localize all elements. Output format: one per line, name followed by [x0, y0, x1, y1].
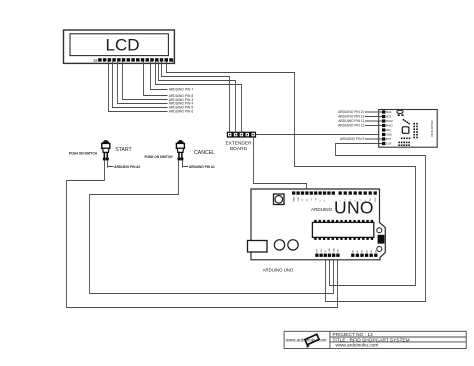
wire extender to RFID GND pin — [256, 134, 382, 136]
svg-text:PUSH ON SWITCH: PUSH ON SWITCH — [145, 155, 174, 159]
wire LCD pin4 to ARDUINO PIN 4 label — [118, 62, 168, 104]
arduino right edge black component — [378, 235, 385, 244]
label ARDUINO PIN A0 with arrow — [108, 165, 141, 169]
arduino bottom pin headers — [315, 248, 377, 257]
svg-text:GND: GND — [298, 197, 300, 202]
svg-text:UNO: UNO — [334, 198, 374, 218]
wire RFID 3.3V to arduino 3V3 pin (outer right loop) — [326, 144, 426, 302]
svg-text:GND: GND — [386, 133, 392, 137]
wire SW1 right leg stub — [107, 160, 109, 167]
push on switch SW1 START — [102, 140, 110, 160]
svg-text:ARDUINO PIN A1: ARDUINO PIN A1 — [189, 165, 215, 169]
svg-text:16: 16 — [93, 58, 98, 63]
svg-text:VIN: VIN — [338, 249, 340, 253]
svg-text:START: START — [115, 147, 132, 153]
svg-text:LCD: LCD — [105, 36, 139, 55]
wire LCD pin to extender pin 2 — [159, 62, 236, 132]
wire LCD pin to ARDUINO PIN 7 label — [151, 62, 168, 90]
arduino mounting holes — [377, 228, 382, 252]
svg-text:ARDUINO PIN A0: ARDUINO PIN A0 — [114, 165, 140, 169]
svg-text:ARDUINO PIN 10: ARDUINO PIN 10 — [338, 110, 364, 114]
svg-text:ARDUINO PIN 13: ARDUINO PIN 13 — [338, 115, 364, 119]
arduino IC pins — [314, 220, 373, 240]
wire SW2 to arduino A1 via inner left loop — [90, 160, 334, 293]
wire extender pin5 to arduino top GND pin — [254, 138, 307, 192]
svg-text:SDA: SDA — [386, 110, 392, 114]
svg-text:ARDUINO PIN 7: ARDUINO PIN 7 — [169, 87, 194, 91]
push on switch SW2 CANCEL — [176, 140, 184, 160]
arduino uno board U1 — [251, 189, 385, 260]
LCD pin header (16 pins) — [98, 58, 173, 61]
title block — [284, 331, 466, 348]
wire SW1 to arduino A0 via outer left loop — [67, 160, 338, 307]
arduino top pin headers — [292, 191, 377, 201]
svg-text:RST: RST — [386, 137, 392, 141]
wire ARDUINO PIN 11 to MOSI — [365, 120, 383, 122]
wire LCD pin to extender pin 1 — [162, 62, 230, 132]
svg-text:MISO: MISO — [386, 124, 393, 128]
arduino ATmega IC — [312, 222, 373, 237]
RFID module RFID-RC522 — [379, 110, 438, 148]
arduino reset button — [274, 194, 285, 205]
wire ARDUINO PIN 10 to SDA — [365, 111, 383, 113]
svg-text:SCK: SCK — [386, 115, 392, 119]
wire ARDUINO PIN 12 to MISO — [365, 125, 383, 127]
wire LCD pin1 long run to right loop — [167, 62, 416, 286]
wire ARDUINO PIN 9 to RST — [365, 138, 383, 140]
wire LCD pin2 to ARDUINO PIN 6 label — [109, 62, 168, 112]
wire SW2 right leg stub — [182, 160, 184, 167]
RFID pin labels — [386, 110, 393, 146]
svg-text:EXTENDER: EXTENDER — [225, 141, 252, 147]
svg-text:ARDUINO PIN 12: ARDUINO PIN 12 — [338, 124, 364, 128]
wire LCD pin to ARDUINO PIN 8 label — [144, 62, 168, 96]
title block logo mark — [303, 334, 320, 348]
svg-text:ARDUINO UNO: ARDUINO UNO — [263, 268, 294, 273]
arduino capacitors — [274, 240, 298, 250]
svg-text:PROJECT NO : 13: PROJECT NO : 13 — [333, 332, 373, 338]
svg-text:GND: GND — [333, 248, 335, 253]
svg-text:3.3V: 3.3V — [386, 142, 392, 146]
svg-text:TITLE : RFID SHOPCART SYSTEM: TITLE : RFID SHOPCART SYSTEM — [333, 337, 410, 343]
LCD module U-LCD — [64, 30, 175, 63]
extender board J1 — [227, 132, 256, 138]
svg-text:ARDUINO: ARDUINO — [311, 207, 333, 212]
RFID pin header (8 pins) — [382, 110, 385, 145]
svg-text:BOARD: BOARD — [230, 146, 248, 152]
svg-text:www.arduinoku.com: www.arduinoku.com — [336, 342, 379, 348]
svg-text:IRQ: IRQ — [386, 128, 391, 132]
wire LCD pin to extender pin 3 — [156, 62, 242, 132]
svg-text:GND: GND — [329, 248, 331, 253]
svg-text:MOSI: MOSI — [386, 119, 393, 123]
svg-text:AREF: AREF — [292, 195, 295, 201]
svg-text:ARDUINO PIN 11: ARDUINO PIN 11 — [338, 119, 364, 123]
arduino USB connector — [248, 241, 268, 253]
wire LCD pin5 to ARDUINO PIN 3 label — [123, 62, 168, 100]
svg-text:ARDUINO PIN 6: ARDUINO PIN 6 — [169, 109, 194, 113]
svg-text:ARDUINO PIN 9: ARDUINO PIN 9 — [340, 137, 365, 141]
svg-text:RFID-RC522: RFID-RC522 — [430, 120, 434, 137]
wire LCD pin3 to ARDUINO PIN 5 label — [113, 62, 168, 108]
label ARDUINO PIN A1 with arrow — [183, 165, 215, 169]
wire ARDUINO PIN 13 to SCK — [365, 116, 383, 118]
svg-text:CANCEL: CANCEL — [194, 150, 215, 156]
svg-text:PUSH ON SWITCH: PUSH ON SWITCH — [69, 152, 98, 156]
